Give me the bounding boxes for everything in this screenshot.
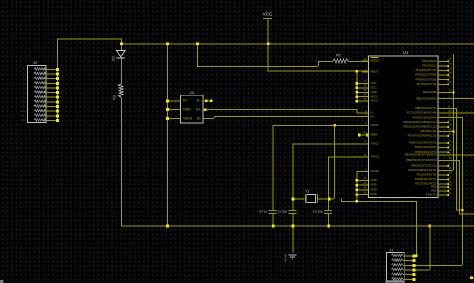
svg-text:UCAP: UCAP: [371, 123, 379, 127]
svg-text:D-: D-: [197, 99, 201, 103]
svg-text:ID: ID: [197, 117, 201, 121]
svg-text:PF5(ADC5/TMS): PF5(ADC5/TMS): [415, 73, 436, 77]
svg-text:AREF: AREF: [371, 133, 379, 137]
svg-text:PB5(OC1A/OC4B/ADC12): PB5(OC1A/OC4B/ADC12): [404, 125, 437, 129]
svg-text:D+: D+: [371, 114, 375, 118]
svg-text:AVCC: AVCC: [371, 94, 379, 98]
svg-text:GND: GND: [371, 90, 377, 94]
svg-text:Y1: Y1: [305, 190, 309, 194]
svg-text:PD1(SDA/INT1): PD1(SDA/INT1): [417, 173, 437, 177]
svg-text:C2 22p: C2 22p: [277, 209, 287, 213]
svg-text:R2: R2: [113, 95, 117, 100]
svg-text:GND: GND: [371, 183, 377, 187]
svg-text:PE2(HWB): PE2(HWB): [423, 90, 437, 94]
svg-text:PF0(ADC0): PF0(ADC0): [422, 59, 437, 63]
svg-text:GND: GND: [183, 108, 191, 112]
svg-text:PD6(T1): PD6(T1): [426, 193, 437, 197]
svg-text:D+: D+: [183, 99, 187, 103]
svg-text:VBUS: VBUS: [183, 117, 193, 121]
svg-text:AVCC: AVCC: [371, 99, 379, 103]
svg-text:PB0(SS/PCINT0): PB0(SS/PCINT0): [415, 106, 437, 110]
svg-text:10: 10: [21, 109, 25, 113]
svg-text:PF1(ADC1): PF1(ADC1): [422, 64, 437, 68]
svg-text:PB6(OC1B/OC4B/ADC13): PB6(OC1B/OC4B/ADC13): [404, 120, 437, 124]
svg-text:PF4(ADC4/TCK): PF4(ADC4/TCK): [416, 68, 437, 72]
svg-text:VBUS: VBUS: [371, 70, 379, 74]
svg-text:PD2(RXD1/INT2): PD2(RXD1/INT2): [415, 177, 437, 181]
svg-text:D1: D1: [112, 56, 116, 61]
svg-text:VCC: VCC: [263, 12, 273, 17]
svg-text:3: 3: [284, 258, 286, 262]
svg-text:D+: D+: [196, 108, 200, 112]
svg-text:C4 1u: C4 1u: [259, 209, 268, 213]
svg-text:PD6(T1/OC4D/ADC9): PD6(T1/OC4D/ADC9): [409, 141, 436, 145]
svg-text:PD0(OC0B/SCL/INT0): PD0(OC0B/SCL/INT0): [409, 168, 437, 172]
svg-text:PE6(INT.6/AIN0): PE6(INT.6/AIN0): [416, 96, 437, 100]
svg-text:PD7(T0/OC4D/ADC10): PD7(T0/OC4D/ADC10): [408, 134, 437, 138]
svg-text:VCC: VCC: [371, 81, 377, 85]
svg-text:PB3(PDO/PCINT3/MISO): PB3(PDO/PCINT3/MISO): [405, 153, 437, 157]
svg-text:C3 22p: C3 22p: [313, 209, 323, 213]
svg-text:XTAL2: XTAL2: [371, 155, 380, 159]
svg-text:PC6(OC3A/OC4A): PC6(OC3A/OC4A): [413, 115, 436, 119]
svg-text:U1: U1: [403, 50, 409, 55]
svg-text:PB2(PDI/PCINT2/MOSI): PB2(PDI/PCINT2/MOSI): [406, 158, 437, 162]
svg-text:PC7(ICP3/CLK0/OC4A): PC7(ICP3/CLK0/OC4A): [407, 111, 437, 115]
svg-text:GND: GND: [371, 178, 377, 182]
svg-text:GND: GND: [371, 188, 377, 192]
svg-text:UGND: UGND: [371, 169, 379, 173]
svg-text:RESET: RESET: [371, 59, 381, 63]
svg-text:VCC: VCC: [371, 86, 377, 90]
svg-text:PF7(ADC7/TDI): PF7(ADC7/TDI): [417, 82, 437, 86]
svg-text:PD4(ICP1/ADC8): PD4(ICP1/ADC8): [415, 145, 437, 149]
svg-text:11: 11: [21, 114, 24, 118]
svg-text:PB4(ADC11): PB4(ADC11): [421, 129, 437, 133]
svg-text:GND: GND: [371, 192, 377, 196]
svg-text:12: 12: [21, 118, 25, 122]
svg-text:XTAL1: XTAL1: [371, 141, 380, 145]
svg-text:PF6(ADC6/TDO): PF6(ADC6/TDO): [415, 77, 436, 81]
svg-text:R6: R6: [336, 54, 340, 58]
